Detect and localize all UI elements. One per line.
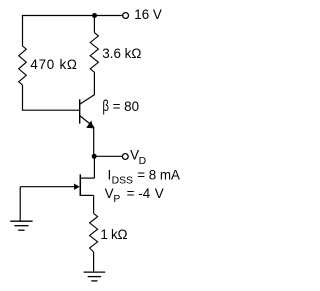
wire drain vertical from node VD down to JFET <box>93 156 95 178</box>
wire vertical from resistor to bottom ground <box>93 252 95 272</box>
wire left vertical upper stub <box>22 15 24 46</box>
wire gate vertical down to ground <box>19 187 21 222</box>
transistor Q1 BJT symbol <box>80 95 95 129</box>
label beta = 80 <box>102 98 139 115</box>
svg-text:-4: -4 <box>138 186 150 201</box>
svg-text:=: = <box>127 186 135 201</box>
svg-text:β: β <box>102 98 109 115</box>
label VP = -4 V <box>105 186 164 205</box>
svg-text:V: V <box>155 186 164 201</box>
svg-text:D: D <box>139 156 147 167</box>
svg-text:16 V: 16 V <box>134 7 162 22</box>
resistor 3.6 kohm zigzag <box>90 33 98 73</box>
wire collector vertical below resistor <box>93 72 95 95</box>
terminal 16 V open circle <box>123 13 129 19</box>
value label 3.6 kOhm <box>102 46 141 61</box>
node junction dot at top (collector supply tap) <box>92 13 97 18</box>
label VD <box>130 148 146 167</box>
node junction dot VD <box>92 154 97 159</box>
ground symbol at gate <box>10 221 32 230</box>
svg-text:470 kΩ: 470 kΩ <box>30 57 77 72</box>
wire source vertical down to resistor <box>93 195 95 213</box>
resistor 1 kohm zigzag <box>90 213 98 252</box>
wire top horizontal from left corner to 16V terminal <box>23 15 123 17</box>
wire collector vertical stub above transistor <box>93 16 95 33</box>
svg-text:3.6 kΩ: 3.6 kΩ <box>102 46 141 61</box>
label IDSS = 8 mA <box>108 167 181 186</box>
wire base horizontal to transistor Q1 <box>22 109 79 111</box>
wire gate horizontal to left <box>20 186 75 188</box>
ground symbol at bottom <box>84 272 106 281</box>
value label 1 kOhm <box>100 227 127 242</box>
terminal VD open circle <box>122 154 128 160</box>
svg-text:= 80: = 80 <box>113 99 139 114</box>
svg-text:P: P <box>113 194 120 205</box>
label 16 V <box>134 7 162 22</box>
resistor 470 kohm zigzag <box>19 46 27 85</box>
svg-text:V: V <box>105 186 114 201</box>
svg-text:1 kΩ: 1 kΩ <box>100 227 127 242</box>
wire left vertical lower stub <box>22 85 24 110</box>
svg-text:= 8 mA: = 8 mA <box>137 167 180 182</box>
transistor J1 JFET symbol <box>74 174 94 196</box>
wire emitter vertical down to node VD <box>93 127 95 157</box>
value label 470 kOhm <box>30 57 77 72</box>
wire horizontal to VD terminal <box>94 155 122 157</box>
